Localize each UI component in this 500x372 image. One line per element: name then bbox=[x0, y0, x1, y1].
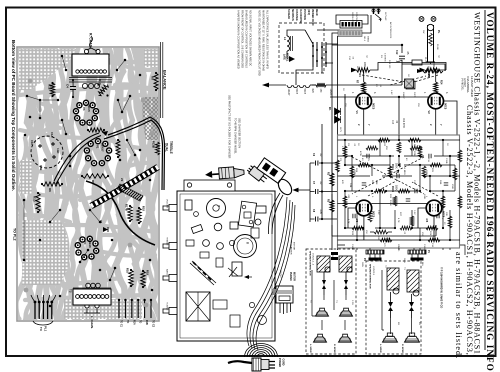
svg-text:L. SPKR: L. SPKR bbox=[309, 344, 311, 353]
svg-text:VOLUME: VOLUME bbox=[166, 199, 168, 209]
svg-text:R11A: R11A bbox=[391, 164, 394, 170]
svg-text:V1: V1 bbox=[96, 145, 100, 149]
switch legend labels bbox=[287, 9, 318, 26]
svg-text:TO: TO bbox=[126, 320, 129, 323]
chassis small parts bbox=[185, 200, 266, 276]
svg-text:AC INTERLOCK: AC INTERLOCK bbox=[389, 22, 392, 39]
svg-text:50C5: 50C5 bbox=[87, 105, 91, 112]
svg-text:NO SIGNAL INPUT. VOLTAGES SHOW: NO SIGNAL INPUT. VOLTAGES SHOWN ARE DC bbox=[249, 10, 252, 66]
svg-text:POSITION: POSITION bbox=[303, 9, 305, 20]
svg-text:85V: 85V bbox=[385, 146, 387, 150]
connector comb 1 bbox=[363, 250, 384, 262]
svg-text:PL: PL bbox=[437, 30, 441, 34]
svg-text:V3: V3 bbox=[82, 107, 86, 111]
svg-text:FUSE: FUSE bbox=[436, 44, 438, 50]
svg-text:TREBLE: TREBLE bbox=[166, 237, 168, 246]
resistor R13 bbox=[33, 192, 41, 213]
tone switch S1 dashed box bbox=[279, 23, 324, 73]
svg-text:GRN: GRN bbox=[403, 258, 405, 263]
on-off switch label box bbox=[340, 21, 362, 29]
tube cathode drops bbox=[364, 101, 457, 135]
dashed gang lines to tone box bbox=[362, 75, 438, 82]
svg-text:SPEAKER WIRING FOR: SPEAKER WIRING FOR bbox=[369, 264, 372, 289]
wire bundle (chassis right) bbox=[250, 200, 293, 349]
svg-text:C16B: C16B bbox=[423, 244, 425, 250]
resistors R17B R18 bbox=[125, 204, 146, 224]
output transformer T6 (box B) bbox=[407, 270, 419, 296]
svg-text:C1A: C1A bbox=[50, 132, 54, 137]
interlock gray box bbox=[338, 30, 362, 37]
svg-text:220K: 220K bbox=[363, 62, 366, 68]
svg-text:R6: R6 bbox=[48, 188, 52, 192]
svg-text:are similar to sets listed.: are similar to sets listed. bbox=[454, 252, 463, 359]
jack L. CHAN bbox=[84, 304, 100, 313]
svg-text:C4: C4 bbox=[66, 84, 70, 88]
svg-text:POWER: POWER bbox=[278, 358, 281, 367]
tube V2 (top right triode) bbox=[427, 93, 448, 114]
plug pair B2 bbox=[409, 294, 414, 318]
svg-text:R12B: R12B bbox=[389, 200, 391, 206]
svg-text:1 MEG: 1 MEG bbox=[403, 168, 405, 175]
coil L1 (tone) bbox=[283, 30, 305, 58]
PCB resistors vertical bbox=[336, 142, 462, 228]
AC plug below frame bbox=[228, 358, 285, 371]
perforated board area (top) bbox=[19, 49, 76, 90]
arrow at chassis left bbox=[244, 275, 252, 279]
perforated board area (bottom strip) bbox=[64, 299, 142, 319]
svg-text:50C5: 50C5 bbox=[303, 89, 305, 95]
svg-text:V4: V4 bbox=[83, 241, 87, 245]
svg-text:1.5K: 1.5K bbox=[413, 142, 415, 147]
svg-text:V-2522-3: V-2522-3 bbox=[372, 266, 374, 276]
svg-text:1.2V: 1.2V bbox=[341, 146, 343, 151]
svg-text:50C5: 50C5 bbox=[442, 211, 446, 218]
svg-text:T2: T2 bbox=[69, 289, 73, 293]
phono cartridge bbox=[257, 158, 286, 184]
svg-text:47K: 47K bbox=[341, 180, 343, 184]
phono plug 2 bbox=[246, 164, 268, 184]
svg-text:50C5: 50C5 bbox=[444, 103, 448, 110]
wire row y45 bbox=[332, 45, 402, 53]
svg-text:S2 ON VOL: S2 ON VOL bbox=[351, 12, 353, 24]
rectifier M1 bbox=[328, 107, 341, 123]
svg-text:PHONO: PHONO bbox=[289, 272, 292, 281]
plate resistor R5 with B+ arrow bbox=[420, 62, 440, 77]
switch wafer S1A bbox=[305, 30, 318, 67]
phase inverter dashed cross bbox=[352, 157, 424, 194]
labels between tubes bbox=[351, 92, 448, 129]
svg-text:R14: R14 bbox=[440, 80, 443, 85]
svg-text:Chassis V-2522-3, Models H-90A: Chassis V-2522-3, Models H-90ACS1, H-90A… bbox=[465, 105, 474, 356]
coupling capacitor C7 bbox=[310, 181, 322, 194]
output transformer T3 (box A) bbox=[317, 256, 330, 272]
svg-text:MODEL: MODEL bbox=[286, 53, 288, 62]
svg-text:M1: M1 bbox=[328, 107, 331, 111]
control shaft labels bbox=[166, 199, 169, 311]
svg-text:GRN: GRN bbox=[361, 262, 363, 267]
svg-text:117V AC: 117V AC bbox=[384, 12, 387, 21]
input arrow from phono bbox=[293, 163, 311, 222]
svg-text:TO PL2: TO PL2 bbox=[279, 270, 281, 278]
svg-text:NOTE: DC VOLTAGES MEASURED FRO: NOTE: DC VOLTAGES MEASURED FROM CIRCUIT … bbox=[258, 10, 261, 76]
svg-text:Z2: Z2 bbox=[120, 178, 124, 182]
connector TO PL1 bbox=[31, 295, 56, 332]
resistor R7 (board) bbox=[116, 140, 120, 157]
svg-text:DUAL: DUAL bbox=[165, 143, 169, 152]
svg-text:C11B: C11B bbox=[445, 158, 447, 164]
svg-text:.005: .005 bbox=[319, 209, 322, 214]
svg-text:8Ω: 8Ω bbox=[418, 322, 420, 325]
plate resistor R4 with B+ arrow bbox=[351, 62, 370, 77]
PCB outline box (schematic) bbox=[338, 135, 460, 248]
svg-text:PL1: PL1 bbox=[44, 326, 48, 332]
heavy jumper wire (lower U, double) bbox=[54, 133, 101, 184]
svg-text:35V: 35V bbox=[417, 103, 419, 107]
svg-text:LATE: LATE bbox=[283, 54, 286, 60]
resistor R2 bbox=[327, 163, 335, 191]
tube V1 (top left triode) bbox=[355, 93, 376, 114]
svg-text:R11B: R11B bbox=[391, 186, 394, 192]
svg-text:50C5: 50C5 bbox=[295, 89, 297, 95]
perforated board area (top right) bbox=[144, 49, 158, 67]
svg-text:R8B: R8B bbox=[371, 180, 373, 185]
svg-text:12BA6: 12BA6 bbox=[329, 89, 332, 97]
tube V4 (lower right output) bbox=[425, 200, 446, 223]
tube socket V4 12BA6 bbox=[75, 236, 98, 260]
control shafts bbox=[163, 205, 177, 315]
interlock receptacle PL1 bbox=[273, 270, 294, 314]
grid resistors bbox=[356, 70, 443, 93]
svg-text:50C5: 50C5 bbox=[372, 103, 376, 110]
PCB junction dots bbox=[344, 139, 451, 241]
svg-text:R18 100: R18 100 bbox=[388, 60, 390, 69]
capacitor C4 bbox=[66, 79, 77, 98]
svg-text:3.3 MEG: 3.3 MEG bbox=[384, 53, 386, 62]
wires PCB to combs bbox=[357, 248, 450, 258]
svg-text:R. SPKR: R. SPKR bbox=[333, 344, 335, 353]
svg-text:CONTROL: CONTROL bbox=[355, 12, 357, 23]
perforated patch mid-left bbox=[20, 160, 32, 194]
svg-text:C1D: C1D bbox=[56, 148, 60, 153]
resistor R6 bbox=[41, 182, 63, 192]
svg-text:R9B: R9B bbox=[439, 180, 441, 185]
heavy jumper wire (parallel) bbox=[104, 120, 163, 190]
heavy jumper wire (lower S) bbox=[86, 181, 155, 245]
resistor R8 bbox=[81, 174, 109, 184]
resistor R9 (board edge) bbox=[151, 72, 159, 91]
svg-text:C12: C12 bbox=[395, 50, 398, 55]
electrolytic capacitor C1 outline bbox=[30, 132, 63, 170]
resistors R16 R19 bbox=[126, 268, 150, 288]
wire grid drop bbox=[345, 97, 399, 140]
resistor R3 bbox=[327, 194, 335, 219]
box A wires bbox=[312, 270, 346, 330]
tuning capacitor (chassis) bbox=[186, 292, 210, 321]
svg-text:COUNTER-: COUNTER- bbox=[295, 9, 297, 21]
LATE MODEL arrow bbox=[283, 53, 296, 62]
black pads left of speaker box bbox=[331, 252, 338, 255]
heavy jumper wire (to treble) bbox=[108, 117, 165, 190]
svg-text:BASS: BASS bbox=[166, 269, 169, 275]
svg-text:50C5: 50C5 bbox=[413, 92, 415, 98]
svg-text:115V: 115V bbox=[356, 66, 358, 71]
coiled line cord bbox=[245, 344, 278, 358]
diode X1 bbox=[99, 220, 108, 232]
resistor R13B bbox=[152, 141, 160, 155]
PC board outline bbox=[17, 47, 159, 321]
svg-text:TO CHANGER: TO CHANGER bbox=[290, 240, 293, 255]
plug pair B1 bbox=[388, 292, 393, 318]
svg-text:V4: V4 bbox=[425, 219, 429, 223]
output transformer T5 (box B) bbox=[387, 268, 399, 294]
speakers box A bottom bbox=[314, 337, 327, 342]
svg-text:65MA: 65MA bbox=[367, 36, 370, 42]
svg-text:R16: R16 bbox=[126, 268, 130, 273]
AC prongs bbox=[372, 9, 381, 21]
resistor R10 bbox=[97, 83, 109, 97]
wiring cable (striped) bbox=[91, 167, 158, 206]
jack panel strip bbox=[184, 180, 235, 191]
wire stubs to bus bbox=[322, 124, 338, 219]
svg-text:C13: C13 bbox=[391, 120, 393, 125]
perforated board area (bottom left) bbox=[22, 220, 70, 285]
svg-text:12BA6: 12BA6 bbox=[88, 239, 92, 248]
svg-text:Bottom View of PC Board Showin: Bottom View of PC Board Showing Top Comp… bbox=[11, 40, 16, 191]
svg-text:30MFD: 30MFD bbox=[397, 244, 399, 252]
svg-text:8: 8 bbox=[246, 242, 250, 244]
notes column (small print) bbox=[228, 10, 269, 159]
tube socket V3 50C5 bbox=[73, 100, 98, 125]
grid wire between tubes bbox=[330, 94, 428, 135]
plug pair A1 bbox=[322, 272, 326, 295]
speaker wiring box B (dashed) bbox=[366, 261, 421, 354]
speaker wiring box A (dashed) bbox=[306, 249, 356, 354]
tone arm wire loop bbox=[276, 177, 295, 197]
svg-text:220K: 220K bbox=[413, 151, 415, 157]
svg-text:R20: R20 bbox=[311, 89, 313, 94]
svg-text:BLK: BLK bbox=[377, 258, 379, 263]
jack R. CHAN bbox=[84, 33, 100, 54]
tone coupling box bbox=[405, 79, 414, 88]
label TO PL2 bbox=[13, 228, 17, 241]
svg-text:3.2Ω: 3.2Ω bbox=[351, 300, 353, 305]
tube V3 (lower left output) bbox=[355, 200, 376, 223]
svg-text:50C5: 50C5 bbox=[372, 211, 376, 218]
coupling capacitor C8 bbox=[310, 209, 322, 222]
svg-text:4.7K: 4.7K bbox=[347, 219, 349, 224]
trace links (dark thin) bbox=[24, 56, 135, 280]
coupling capacitor C6 bbox=[310, 153, 322, 166]
dashed link to dial lamp bbox=[390, 76, 426, 85]
svg-text:R1B: R1B bbox=[145, 320, 148, 325]
svg-text:BLU: BLU bbox=[421, 262, 423, 267]
coil Z2 (hatched) bbox=[117, 178, 143, 201]
svg-text:1.2V: 1.2V bbox=[416, 145, 418, 150]
rule left of title bbox=[484, 10, 486, 350]
svg-text:1.4V: 1.4V bbox=[390, 90, 392, 95]
extra wire bundle lines bbox=[247, 197, 295, 350]
sub-board C8 on chassis bbox=[238, 201, 256, 227]
svg-text:ALL CAPACITANCE VALUES LESS TH: ALL CAPACITANCE VALUES LESS THAN 1 IN MF… bbox=[266, 10, 269, 69]
svg-text:12AX7: 12AX7 bbox=[101, 143, 105, 152]
svg-text:SHOWN IN: SHOWN IN bbox=[291, 9, 293, 21]
svg-text:C4A: C4A bbox=[349, 183, 352, 188]
svg-text:A-WAFER SHOWN IN CCW POSITION: A-WAFER SHOWN IN CCW POSITION AS VIEWED bbox=[237, 10, 240, 69]
chassis top view outline bbox=[177, 191, 275, 341]
svg-text:S1 REAR: S1 REAR bbox=[287, 9, 290, 19]
pin number labels tubes bbox=[355, 196, 443, 220]
svg-text:REAR: REAR bbox=[315, 9, 318, 16]
svg-text:220K: 220K bbox=[353, 170, 355, 176]
board edge wires bbox=[161, 42, 163, 118]
svg-text:L. SPKR: L. SPKR bbox=[379, 344, 381, 353]
crosshatch region (right edge) bbox=[142, 97, 158, 140]
connector comb 2 bbox=[408, 250, 430, 261]
svg-text:6.8K: 6.8K bbox=[375, 180, 377, 185]
svg-text:SEE PHOTOFACT SET 000 FOLDER 0: SEE PHOTOFACT SET 000 FOLDER 0 FOR CHANG… bbox=[228, 95, 231, 159]
resistor R12 bbox=[48, 82, 55, 97]
connector TO C1/R1 bbox=[118, 299, 155, 328]
svg-text:SR-1: SR-1 bbox=[363, 36, 365, 42]
svg-text:MOTOR: MOTOR bbox=[293, 272, 296, 281]
svg-text:500K: 500K bbox=[395, 163, 398, 169]
wires S1 to right bbox=[296, 30, 340, 85]
PCB tiny value labels bbox=[339, 142, 453, 248]
capacitor C12 bbox=[395, 50, 409, 61]
resistor R5 (board) bbox=[88, 128, 104, 132]
wire below PCB box bbox=[332, 225, 436, 236]
PCB resistors horizontal bbox=[352, 138, 442, 242]
PCB capacitors bbox=[353, 154, 448, 243]
rod antenna on chassis bbox=[190, 261, 216, 285]
switch wafer S1B bbox=[321, 42, 327, 67]
svg-text:R13: R13 bbox=[33, 196, 37, 202]
svg-text:C16A: C16A bbox=[351, 244, 354, 250]
svg-text:12AX7: 12AX7 bbox=[287, 89, 290, 97]
PCB box internal wires bbox=[338, 140, 461, 240]
svg-text:SEE CHANGER SECTION: SEE CHANGER SECTION bbox=[238, 118, 241, 148]
speakers box A mid bbox=[316, 311, 329, 316]
wires combs to boxes bbox=[338, 245, 466, 261]
svg-text:R19 470K: R19 470K bbox=[402, 118, 404, 129]
misc small labels (bottom) bbox=[309, 252, 423, 325]
svg-text:100K: 100K bbox=[423, 194, 425, 200]
svg-text:C1B: C1B bbox=[39, 165, 43, 170]
svg-text:0.3V: 0.3V bbox=[377, 210, 379, 215]
svg-text:117V: 117V bbox=[339, 127, 341, 132]
svg-text:V2: V2 bbox=[427, 111, 431, 115]
svg-text:TUNING: TUNING bbox=[166, 302, 168, 311]
svg-text:TO 45 RPM CHANGER MODEL: TO 45 RPM CHANGER MODEL bbox=[234, 118, 237, 155]
svg-text:R. SPKR: R. SPKR bbox=[401, 344, 403, 353]
capacitor can C20 bbox=[234, 235, 257, 258]
svg-text:R18: R18 bbox=[142, 206, 146, 211]
svg-text:TO C1: TO C1 bbox=[120, 320, 123, 328]
box B wires bbox=[382, 270, 412, 334]
svg-text:B-MEASURED IN CCW POSITION OF: B-MEASURED IN CCW POSITION OF CONTROLS bbox=[245, 10, 248, 68]
svg-text:12-BA6T: 12-BA6T bbox=[463, 78, 466, 88]
svg-text:R13B: R13B bbox=[152, 141, 156, 148]
speakers box B bbox=[383, 336, 398, 342]
pilot lamp assembly bbox=[419, 17, 441, 62]
svg-text:FROM FRONT OF CONTROL. S-B COM: FROM FRONT OF CONTROL. S-B COMMON GRD bbox=[241, 10, 244, 68]
svg-text:R19: R19 bbox=[146, 270, 150, 275]
svg-text:115V: 115V bbox=[427, 66, 429, 71]
wire pilot to filament bbox=[402, 60, 445, 85]
svg-text:V1: V1 bbox=[355, 111, 359, 115]
svg-text:R12: R12 bbox=[48, 84, 52, 90]
svg-text:R1A: R1A bbox=[132, 320, 135, 325]
svg-text:TO C2: TO C2 bbox=[152, 320, 155, 328]
svg-text:TO PL2: TO PL2 bbox=[13, 228, 17, 241]
svg-text:TREBLE: TREBLE bbox=[169, 141, 173, 154]
top wire with box bbox=[370, 63, 446, 71]
svg-text:12-BA6T USED: 12-BA6T USED bbox=[470, 76, 474, 98]
svg-text:500K: 500K bbox=[395, 185, 398, 191]
svg-text:0.3V: 0.3V bbox=[413, 210, 415, 215]
svg-text:PL-12: PL-12 bbox=[424, 57, 426, 64]
PC board copper traces bbox=[12, 48, 160, 320]
phono plug (RCA) bbox=[205, 166, 245, 180]
svg-text:T: T bbox=[217, 205, 221, 207]
svg-text:MAINTAINED AT 117 V. RMS. RESI: MAINTAINED AT 117 V. RMS. RESISTANCE IN … bbox=[262, 10, 265, 71]
svg-text:C1C: C1C bbox=[30, 140, 34, 145]
svg-text:V4A MODEL: V4A MODEL bbox=[466, 76, 470, 93]
dashed line to V3 grid bbox=[368, 180, 438, 196]
svg-text:(OFF): (OFF) bbox=[307, 9, 309, 15]
volume control block bbox=[391, 163, 401, 192]
svg-text:R9: R9 bbox=[151, 76, 155, 80]
svg-text:150K: 150K bbox=[451, 184, 453, 190]
svg-text:470K: 470K bbox=[359, 151, 361, 157]
svg-text:35V: 35V bbox=[344, 103, 346, 107]
transformer T2 (on board) bbox=[69, 283, 112, 329]
svg-text:V-A MODEL: V-A MODEL bbox=[461, 78, 464, 91]
svg-text:4.7K: 4.7K bbox=[397, 218, 399, 223]
svg-text:MOTOR: MOTOR bbox=[293, 242, 295, 251]
wires switch to prongs bbox=[332, 15, 371, 45]
svg-text:12AX7: 12AX7 bbox=[402, 92, 405, 99]
resistor R21 bbox=[417, 69, 443, 79]
cathode network V3 bbox=[348, 208, 392, 241]
filament bus bbox=[262, 83, 402, 88]
power transformer T (chassis) bbox=[207, 199, 226, 218]
svg-text:TO: TO bbox=[139, 320, 142, 323]
svg-text:© ® 1964 HOWARD W. SAMS ® CO: © ® 1964 HOWARD W. SAMS ® CO bbox=[440, 267, 443, 308]
svg-text:CORD: CORD bbox=[282, 359, 285, 366]
misc small labels (upper schematic) bbox=[339, 12, 439, 132]
svg-text:V-2522-1, -2: V-2522-1, -2 bbox=[312, 253, 314, 266]
output transformer T1 (on board) bbox=[69, 54, 112, 89]
svg-text:V3: V3 bbox=[355, 219, 359, 223]
tube socket V1 12AX7 bbox=[84, 139, 111, 166]
output transformer T4 (box A) bbox=[339, 256, 352, 272]
misc small labels (PCB box) bbox=[341, 143, 448, 252]
vertical bus left bbox=[332, 36, 338, 250]
svg-text:SPEAKER WIRING FOR: SPEAKER WIRING FOR bbox=[309, 251, 312, 276]
plug pair A2 bbox=[344, 272, 348, 295]
tone arm wires bbox=[268, 193, 283, 234]
svg-text:8Ω: 8Ω bbox=[397, 322, 399, 325]
board pads and junctions bbox=[23, 55, 155, 308]
svg-text:CLOCKWISE: CLOCKWISE bbox=[299, 9, 301, 24]
svg-text:VOLUME R-24, MOST-OFTEN-NEEDED: VOLUME R-24, MOST-OFTEN-NEEDED 1964 RADI… bbox=[485, 12, 495, 372]
dial lamp box bbox=[406, 81, 415, 89]
svg-text:220K: 220K bbox=[425, 170, 427, 176]
svg-text:BALANCE: BALANCE bbox=[163, 70, 168, 90]
svg-text:L. CHAN.: L. CHAN. bbox=[90, 316, 94, 329]
chassis extra parts bbox=[186, 212, 267, 327]
